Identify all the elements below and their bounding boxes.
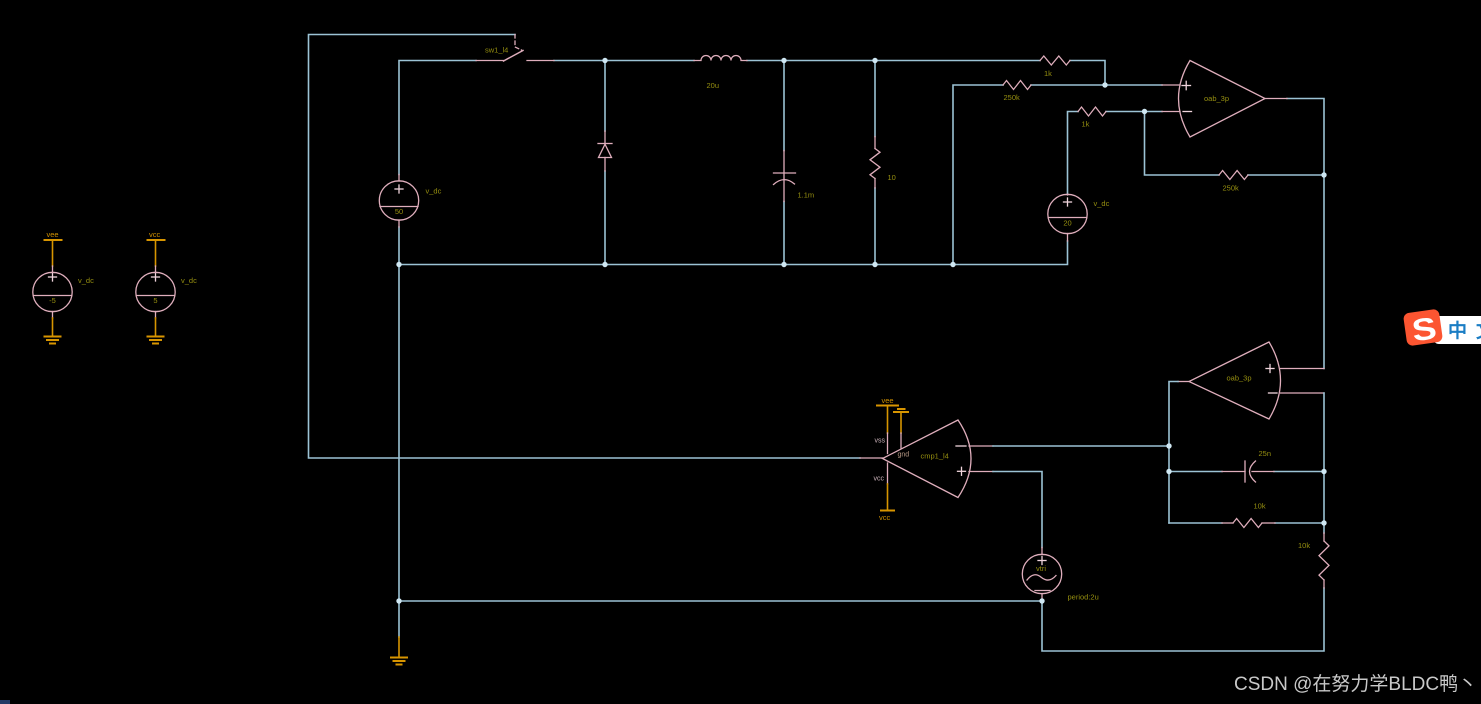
svg-text:250k: 250k: [1223, 184, 1240, 193]
wire triangle source node to lower right rail: [1042, 588, 1324, 651]
wire minus column (U2): [1323, 393, 1325, 533]
wire R2 1k to opamp plus node: [1070, 61, 1105, 86]
diode D1: [598, 131, 612, 171]
wire R6 10k to minus column: [1275, 522, 1324, 524]
svg-text:cmp1_l4: cmp1_l4: [921, 452, 949, 461]
node vcc (comparator positive supply bar): [881, 510, 894, 512]
voltage source V2 v_dc 20 (reference): [1048, 194, 1087, 241]
voltage source V3 v_dc -5 (vee supply): [33, 266, 72, 318]
wire V1 top to switch: [399, 61, 476, 175]
CSDN floating logo (right edge): [1403, 309, 1481, 350]
node bottom rail / diode: [602, 262, 607, 267]
wire vcc bar to source V4: [155, 241, 157, 266]
svg-text:vcc: vcc: [879, 513, 891, 522]
pin gnd lead: [900, 433, 902, 448]
wire vee bar to comparator vss pin: [887, 407, 889, 434]
resistor R4 1k: [1078, 107, 1106, 116]
svg-text:1k: 1k: [1044, 69, 1052, 78]
wire V2 top to R4 1k: [1068, 112, 1079, 195]
wire diode node to inductor: [605, 60, 694, 62]
svg-text:v_dc: v_dc: [181, 276, 197, 285]
svg-text:vcc: vcc: [149, 230, 161, 239]
wire R1 10 top column: [874, 61, 876, 137]
svg-text:sw1_l4: sw1_l4: [485, 46, 508, 55]
svg-text:vee: vee: [47, 230, 59, 239]
svg-text:50: 50: [395, 207, 403, 216]
voltage source V5 vtri (triangle wave): [1022, 548, 1061, 602]
voltage source V1 v_dc 50 (input): [379, 175, 418, 228]
svg-text:v_dc: v_dc: [426, 187, 442, 196]
ground (below V4): [148, 337, 164, 344]
svg-text:-5: -5: [49, 296, 56, 305]
node bottom rail / V1: [396, 262, 401, 267]
wire cap C1 top column: [783, 61, 785, 151]
svg-text:gnd: gnd: [898, 452, 910, 459]
wire vee bar to source V3: [52, 241, 54, 266]
wire comparator vcc pin to vcc bar: [887, 484, 889, 510]
wire compensator output column: [1169, 382, 1178, 524]
svg-text:1.1m: 1.1m: [798, 191, 815, 200]
wire comparator plus input down to triangle source: [993, 472, 1042, 548]
svg-text:10k: 10k: [1254, 502, 1266, 511]
svg-text:vcc: vcc: [874, 476, 885, 483]
wire cap C2 to minus column: [1274, 471, 1324, 473]
wire R3 250k to plus node: [1031, 84, 1105, 86]
svg-text:25n: 25n: [1259, 449, 1272, 458]
node U2 minus / R6: [1321, 520, 1326, 525]
svg-text:vss: vss: [875, 438, 886, 445]
op-amp U2 oab_3p (compensator, mirrored): [1178, 342, 1324, 419]
wire R1 10 bottom to rail: [874, 188, 876, 265]
pin vss lead: [887, 433, 889, 454]
ground (below V3): [45, 337, 61, 344]
node U2 minus / C2: [1321, 469, 1326, 474]
wire source V3 to ground: [52, 318, 54, 336]
capacitor C1 1.1m (output cap): [774, 151, 796, 202]
wire V1 bottom column to ground node: [398, 227, 400, 601]
svg-text:period:2u: period:2u: [1068, 593, 1099, 602]
svg-text:v_dc: v_dc: [1094, 199, 1110, 208]
svg-text:1k: 1k: [1082, 120, 1090, 129]
voltage source V4 v_dc 5 (vcc supply): [136, 266, 175, 318]
svg-text:20u: 20u: [707, 81, 720, 90]
node U2 output / C2: [1166, 469, 1171, 474]
wire op-amp U1 output down to U2 plus input: [1287, 99, 1324, 369]
node cap/load: [872, 58, 877, 63]
svg-text:CSDN @在努力学BLDC鸭丶: CSDN @在努力学BLDC鸭丶: [1234, 673, 1477, 695]
node vee (comparator negative supply bar): [877, 405, 898, 407]
resistor R6 10k (feedback): [1222, 519, 1275, 528]
wire gnd bar to comparator gnd pin: [900, 413, 902, 433]
svg-text:5: 5: [153, 296, 157, 305]
svg-text:10k: 10k: [1298, 541, 1310, 550]
pin vcc lead: [887, 463, 889, 484]
wire bottom rail riser to R3 250k: [953, 85, 1003, 265]
resistor R3 250k (input divider): [1003, 81, 1031, 90]
wire minus node down to feedback row: [1145, 112, 1220, 176]
svg-text:20: 20: [1063, 219, 1071, 228]
wire comparator output to switch control: [309, 35, 861, 459]
resistor R2 1k (top rail): [1040, 56, 1070, 65]
ground (comparator gnd pin bar): [894, 409, 908, 412]
svg-text:oab_3p: oab_3p: [1204, 94, 1229, 103]
wire ground node stub: [398, 601, 400, 637]
node U1 output/feedback: [1321, 172, 1326, 177]
wire R4 1k to opamp minus node: [1106, 111, 1162, 113]
wire cap C2 row: [1169, 471, 1222, 473]
resistor R5 250k (feedback): [1219, 171, 1248, 180]
wire comparator minus input to compensator output node: [993, 445, 1169, 447]
wire node to op-amp U1 plus input: [1105, 84, 1162, 86]
source circle collar ticks: [50, 181, 1070, 554]
svg-text:oab_3p: oab_3p: [1227, 374, 1252, 383]
wire bottom rail: [399, 241, 1068, 265]
op-amp U1 oab_3p (error amp): [1162, 61, 1287, 138]
resistor R7 10k (to lower rail): [1319, 533, 1329, 588]
svg-text:vtri: vtri: [1036, 564, 1046, 573]
svg-text:文: 文: [1476, 319, 1481, 342]
wire R5 250k to output column: [1248, 174, 1324, 176]
node switch/diode: [602, 58, 607, 63]
node vcc (net label bar): [148, 239, 165, 241]
node opamp plus: [1102, 82, 1107, 87]
wire cap C1 bottom to rail: [783, 202, 785, 265]
svg-text:vee: vee: [882, 396, 894, 405]
node comparator minus / U2 output: [1166, 443, 1171, 448]
switch SW1 sw1_l4: [476, 35, 554, 62]
node bottom rail / riser: [950, 262, 955, 267]
wire inductor to output node (top rail): [747, 60, 1040, 62]
node opamp minus: [1142, 109, 1147, 114]
wire lower rail to triangle source: [399, 600, 1042, 602]
wire R6 10k row: [1169, 522, 1222, 524]
wire diode anode to bottom rail: [604, 171, 606, 265]
node bottom rail / cap: [781, 262, 786, 267]
resistor R1 10 (load): [870, 137, 880, 189]
bottom-left blue sliver: [0, 700, 10, 704]
ground (main, below node): [391, 658, 407, 665]
svg-text:中: 中: [1448, 319, 1467, 342]
svg-text:10: 10: [888, 173, 896, 182]
inductor L1 20u: [694, 56, 747, 61]
node vee (net label bar): [45, 239, 62, 241]
node triangle source bottom: [1039, 598, 1044, 603]
capacitor C2 25n (feedback): [1222, 461, 1274, 482]
node bottom rail / load: [872, 262, 877, 267]
node ground junction: [396, 598, 401, 603]
comparator U3 cmp1_l4: [860, 420, 993, 498]
node inductor/cap: [781, 58, 786, 63]
wire source V4 to ground: [155, 318, 157, 336]
svg-text:S: S: [1410, 311, 1439, 349]
wire diode cathode column: [604, 61, 606, 132]
svg-text:250k: 250k: [1004, 93, 1021, 102]
wire switch to diode node: [554, 60, 605, 62]
svg-text:v_dc: v_dc: [78, 276, 94, 285]
wire main ground column orange tail: [398, 637, 400, 657]
